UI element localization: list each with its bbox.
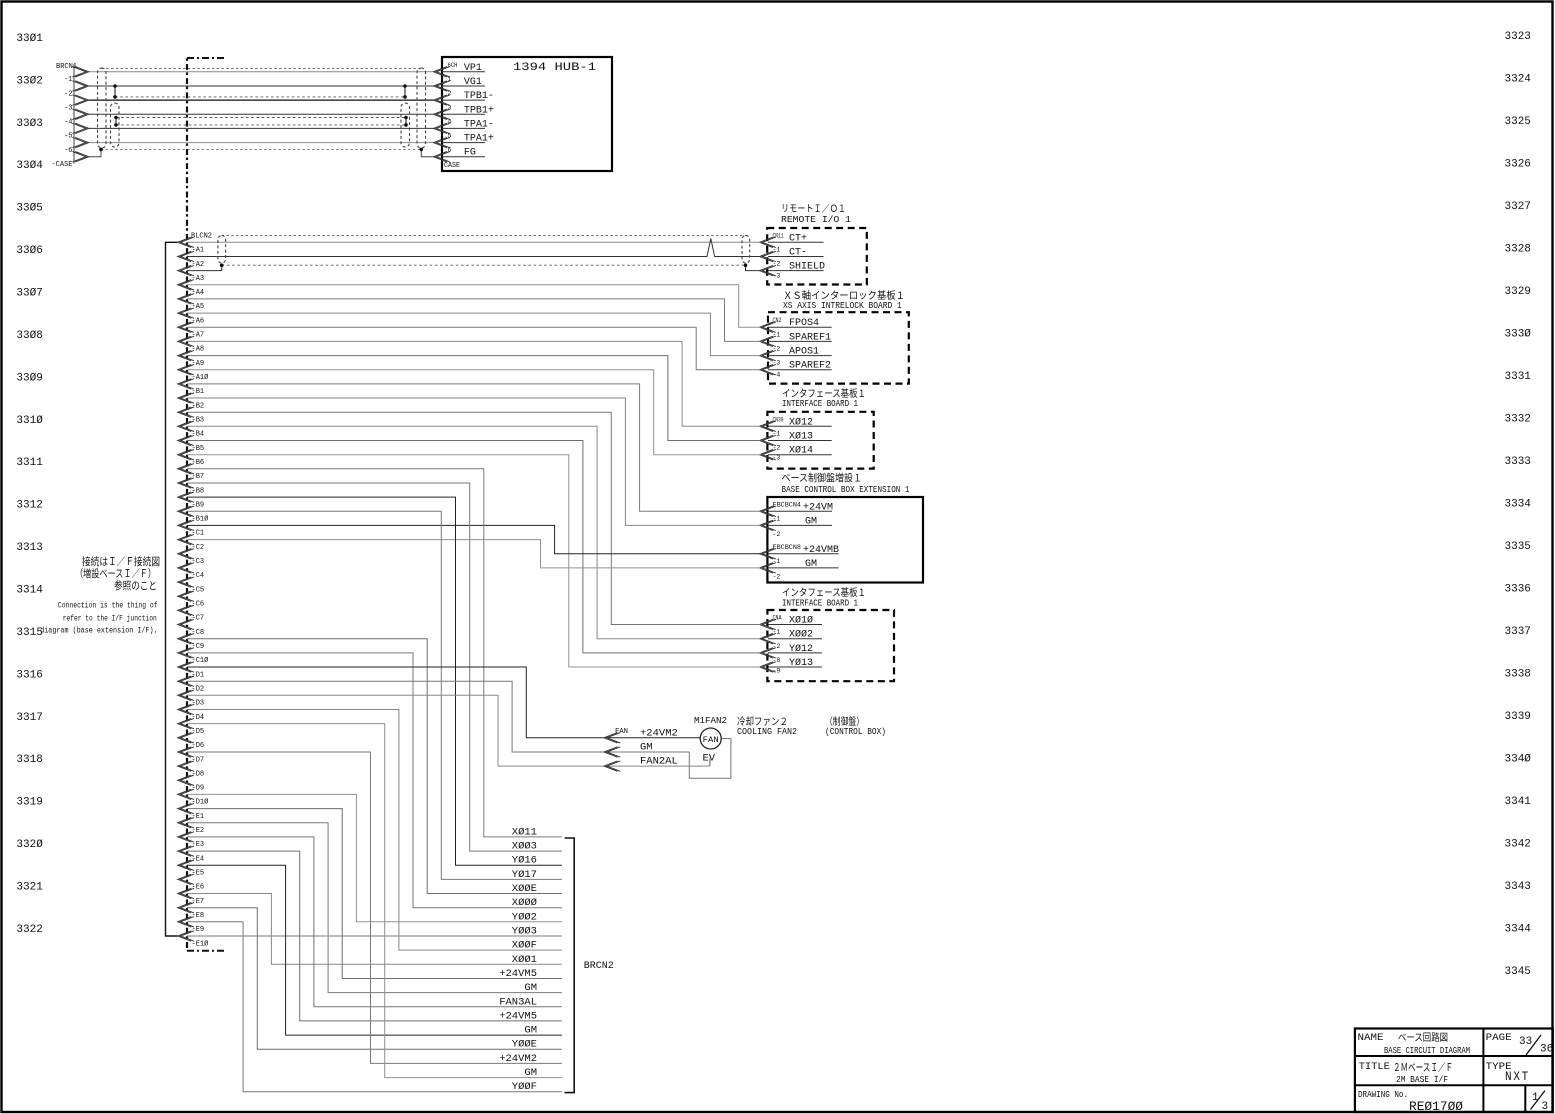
svg-text:2M BASE I/F: 2M BASE I/F (1396, 1074, 1448, 1085)
svg-text:-C8: -C8 (192, 629, 205, 637)
svg-text:EBCBCN4: EBCBCN4 (773, 501, 802, 508)
svg-text:XØØ1: XØØ1 (512, 954, 537, 966)
svg-text:BRCN2: BRCN2 (584, 961, 614, 972)
svg-text:-B4: -B4 (192, 431, 205, 439)
svg-text:CT-: CT- (789, 248, 807, 259)
svg-text:3332: 3332 (1505, 414, 1531, 426)
svg-text:XØ11: XØ11 (512, 826, 537, 838)
svg-text:COOLING FAN2: COOLING FAN2 (737, 727, 797, 737)
svg-text:ベース制御盤増設１: ベース制御盤増設１ (782, 472, 863, 485)
svg-text:-D6: -D6 (192, 742, 205, 750)
svg-text:3334: 3334 (1505, 499, 1532, 511)
svg-text:-3: -3 (773, 455, 781, 462)
svg-text:3322: 3322 (16, 924, 42, 936)
svg-text:-B1: -B1 (192, 388, 205, 396)
svg-text:-C4: -C4 (192, 572, 205, 580)
svg-text:GM: GM (640, 742, 653, 754)
svg-text:6: 6 (448, 147, 452, 154)
svg-text:3335: 3335 (1505, 541, 1531, 553)
svg-text:INTERFACE BOARD 1: INTERFACE BOARD 1 (782, 599, 858, 609)
svg-text:3338: 3338 (1505, 669, 1531, 681)
svg-text:3331: 3331 (1505, 371, 1532, 383)
svg-text:２ＭベースＩ／Ｆ: ２ＭベースＩ／Ｆ (1393, 1061, 1453, 1074)
svg-text:3336: 3336 (1505, 584, 1531, 596)
svg-text:-E1Ø: -E1Ø (192, 939, 209, 948)
svg-text:331Ø: 331Ø (16, 415, 43, 427)
svg-text:-D1: -D1 (192, 671, 205, 679)
svg-text:-E7: -E7 (192, 898, 205, 906)
svg-text:3342: 3342 (1505, 839, 1531, 851)
svg-text:3314: 3314 (16, 585, 43, 597)
svg-text:FPOS4: FPOS4 (789, 318, 819, 329)
svg-text:YØ16: YØ16 (512, 855, 537, 867)
svg-text:1: 1 (448, 76, 452, 83)
svg-text:NXT: NXT (1505, 1070, 1530, 1084)
svg-text:-B6: -B6 (192, 459, 205, 467)
svg-text:3337: 3337 (1505, 626, 1531, 638)
svg-text:33Ø1: 33Ø1 (16, 33, 43, 45)
svg-text:-E9: -E9 (192, 926, 205, 934)
svg-text:TPA1-: TPA1- (464, 119, 494, 130)
svg-text:-2: -2 (64, 90, 72, 98)
svg-text:-E1: -E1 (192, 813, 205, 821)
svg-text:BRCN1: BRCN1 (56, 63, 77, 71)
svg-text:XØ1Ø: XØ1Ø (789, 615, 813, 627)
svg-text:-B2: -B2 (192, 402, 205, 410)
svg-text:-D8: -D8 (192, 770, 205, 778)
svg-text:5: 5 (448, 133, 452, 140)
svg-text:3311: 3311 (16, 457, 43, 469)
svg-text:-A5: -A5 (192, 303, 205, 311)
svg-text:TPB1-: TPB1- (464, 91, 494, 102)
svg-text:SPAREF2: SPAREF2 (789, 361, 831, 372)
svg-text:DRAWING No.: DRAWING No. (1358, 1089, 1408, 1100)
svg-text:-E8: -E8 (192, 912, 205, 920)
svg-text:SPAREF1: SPAREF1 (789, 332, 831, 343)
svg-text:-C1: -C1 (192, 530, 205, 538)
svg-text:-1: -1 (64, 76, 72, 84)
svg-text:-2: -2 (773, 643, 781, 650)
svg-text:-2: -2 (773, 574, 781, 581)
svg-text:-4: -4 (773, 372, 781, 379)
svg-text:CN2: CN2 (773, 317, 782, 324)
svg-text:3341: 3341 (1505, 796, 1532, 808)
svg-text:+24VM5: +24VM5 (499, 1010, 537, 1022)
svg-text:-B5: -B5 (192, 445, 205, 453)
svg-text:XØØ3: XØØ3 (512, 841, 537, 853)
svg-text:+24VMB: +24VMB (803, 545, 839, 556)
svg-text:XØ13: XØ13 (789, 431, 813, 443)
svg-text:YØ13: YØ13 (789, 657, 813, 669)
svg-text:33Ø2: 33Ø2 (16, 75, 42, 87)
svg-text:YØØ3: YØØ3 (512, 926, 537, 938)
svg-text:-D2: -D2 (192, 686, 205, 694)
svg-text:3323: 3323 (1505, 31, 1531, 43)
svg-text:NAME: NAME (1358, 1032, 1384, 1044)
svg-text:PAGE: PAGE (1486, 1032, 1512, 1044)
svg-text:-2: -2 (773, 531, 781, 538)
svg-text:-5: -5 (64, 133, 72, 141)
svg-text:3316: 3316 (16, 669, 42, 681)
svg-text:33Ø9: 33Ø9 (16, 372, 42, 384)
svg-text:334Ø: 334Ø (1505, 754, 1532, 766)
svg-text:+24VM2: +24VM2 (640, 727, 678, 739)
svg-text:YØØF: YØØF (512, 1081, 537, 1093)
svg-text:333Ø: 333Ø (1505, 329, 1532, 341)
svg-text:33Ø7: 33Ø7 (16, 288, 42, 300)
svg-text:332Ø: 332Ø (16, 839, 43, 851)
svg-text:diagram (base extension I/F).: diagram (base extension I/F). (40, 625, 157, 635)
svg-text:-B7: -B7 (192, 473, 205, 481)
svg-text:33Ø5: 33Ø5 (16, 203, 42, 215)
svg-text:3343: 3343 (1505, 881, 1531, 893)
svg-text:3345: 3345 (1505, 966, 1531, 978)
svg-text:-E4: -E4 (192, 855, 205, 863)
svg-text:TITLE: TITLE (1359, 1061, 1390, 1073)
svg-text:YØØE: YØØE (512, 1039, 537, 1051)
svg-text:2: 2 (448, 90, 452, 97)
svg-text:3326: 3326 (1505, 159, 1531, 171)
svg-text:GM: GM (524, 1067, 537, 1079)
svg-text:-A3: -A3 (192, 275, 205, 283)
svg-text:3328: 3328 (1505, 244, 1531, 256)
svg-text:3315: 3315 (16, 627, 42, 639)
svg-text:-1: -1 (773, 431, 781, 438)
svg-text:-4: -4 (64, 119, 72, 127)
svg-text:-C3: -C3 (192, 558, 205, 566)
svg-text:-E3: -E3 (192, 841, 205, 849)
svg-text:33Ø6: 33Ø6 (16, 245, 42, 257)
svg-text:XØØØ: XØØØ (512, 897, 537, 909)
svg-text:-A1Ø: -A1Ø (192, 373, 209, 382)
svg-text:リモートＩ／Ｏ１: リモートＩ／Ｏ１ (781, 203, 846, 215)
svg-text:-C2: -C2 (192, 544, 205, 552)
svg-text:3324: 3324 (1505, 74, 1532, 86)
svg-text:-1: -1 (773, 247, 781, 254)
svg-text:TPB1+: TPB1+ (464, 105, 494, 116)
svg-text:YØ17: YØ17 (512, 869, 537, 881)
svg-text:FAN3AL: FAN3AL (499, 996, 537, 1008)
svg-text:YØ12: YØ12 (789, 643, 813, 655)
svg-text:EBCBCN8: EBCBCN8 (773, 544, 802, 551)
svg-text:-2: -2 (773, 346, 781, 353)
svg-text:3: 3 (1542, 1101, 1549, 1113)
svg-text:3318: 3318 (16, 754, 42, 766)
svg-text:-9: -9 (773, 668, 781, 675)
svg-text:FAN2AL: FAN2AL (640, 756, 678, 768)
svg-text:-A8: -A8 (192, 346, 205, 354)
svg-text:VG1: VG1 (464, 77, 482, 88)
svg-text:refer to the I/F junction: refer to the I/F junction (63, 613, 157, 623)
svg-text:XØ12: XØ12 (789, 416, 813, 428)
svg-text:-D1Ø: -D1Ø (192, 798, 209, 807)
svg-text:ベース回路図: ベース回路図 (1398, 1031, 1448, 1044)
svg-text:TPA1+: TPA1+ (464, 134, 494, 145)
svg-text:3327: 3327 (1505, 201, 1531, 213)
svg-text:-A2: -A2 (192, 261, 205, 269)
svg-text:3317: 3317 (16, 712, 42, 724)
svg-text:+24VM2: +24VM2 (499, 1053, 537, 1065)
svg-text:M1FAN2: M1FAN2 (694, 715, 727, 726)
svg-text:XS AXIS INTRELOCK BOARD 1: XS AXIS INTRELOCK BOARD 1 (783, 301, 902, 311)
svg-text:-B8: -B8 (192, 487, 205, 495)
svg-text:-1: -1 (773, 629, 781, 636)
svg-text:33Ø4: 33Ø4 (16, 160, 43, 172)
svg-text:3333: 3333 (1505, 456, 1531, 468)
svg-text:-1: -1 (773, 331, 781, 338)
svg-text:インタフェース基板１: インタフェース基板１ (782, 586, 866, 599)
svg-text:-D7: -D7 (192, 756, 205, 764)
svg-text:REMOTE I/O 1: REMOTE I/O 1 (781, 215, 851, 225)
svg-text:FAN: FAN (703, 736, 719, 745)
svg-text:-CASE: -CASE (51, 161, 72, 169)
svg-text:CN30: CN30 (773, 416, 784, 423)
svg-text:-2: -2 (773, 445, 781, 452)
svg-text:-3: -3 (64, 104, 72, 112)
svg-text:-D3: -D3 (192, 700, 205, 708)
svg-text:CT+: CT+ (789, 233, 807, 244)
svg-text:-2: -2 (773, 261, 781, 268)
svg-text:4: 4 (448, 118, 452, 125)
svg-text:SHIELD: SHIELD (789, 262, 825, 273)
svg-text:GM: GM (524, 982, 537, 994)
svg-text:-D5: -D5 (192, 728, 205, 736)
svg-text:-3: -3 (773, 273, 781, 280)
svg-text:-A9: -A9 (192, 360, 205, 368)
svg-text:REØ17ØØ: REØ17ØØ (1409, 1099, 1463, 1114)
svg-text:3339: 3339 (1505, 711, 1531, 723)
svg-text:FAN: FAN (615, 728, 628, 736)
svg-text:GM: GM (805, 516, 817, 527)
svg-text:-A7: -A7 (192, 332, 205, 340)
svg-text:-B1Ø: -B1Ø (192, 515, 209, 524)
svg-text:-B3: -B3 (192, 417, 205, 425)
svg-text:-C6: -C6 (192, 601, 205, 609)
svg-text:-A6: -A6 (192, 317, 205, 325)
svg-text:BLCN2: BLCN2 (191, 233, 212, 241)
svg-text:YØØ2: YØØ2 (512, 911, 537, 923)
svg-text:XØ14: XØ14 (789, 445, 813, 457)
svg-text:33Ø8: 33Ø8 (16, 330, 42, 342)
svg-text:-C5: -C5 (192, 586, 205, 594)
svg-text:XØØE: XØØE (512, 883, 537, 895)
svg-text:インタフェース基板１: インタフェース基板１ (782, 387, 866, 400)
svg-text:-8: -8 (773, 657, 781, 664)
svg-text:-C9: -C9 (192, 643, 205, 651)
svg-text:CASE: CASE (444, 162, 460, 170)
svg-text:-6: -6 (64, 147, 72, 155)
svg-text:XØØ2: XØØ2 (789, 629, 813, 641)
svg-text:-B9: -B9 (192, 501, 205, 509)
svg-text:EV: EV (703, 753, 716, 765)
svg-text:-D4: -D4 (192, 714, 205, 722)
svg-text:BASE CIRCUIT DIAGRAM: BASE CIRCUIT DIAGRAM (1384, 1045, 1470, 1056)
svg-text:VP1: VP1 (464, 63, 482, 74)
svg-text:3344: 3344 (1505, 924, 1532, 936)
svg-text:+24VM5: +24VM5 (499, 968, 537, 980)
svg-text:-E2: -E2 (192, 827, 205, 835)
svg-text:-3: -3 (773, 360, 781, 367)
svg-text:-C7: -C7 (192, 615, 205, 623)
svg-text:33Ø3: 33Ø3 (16, 118, 42, 130)
svg-text:BASE CONTROL BOX EXTENSION 1: BASE CONTROL BOX EXTENSION 1 (782, 485, 910, 495)
svg-text:36: 36 (1540, 1044, 1553, 1056)
svg-text:-D9: -D9 (192, 785, 205, 793)
svg-text:CN11: CN11 (773, 232, 784, 239)
svg-text:Connection is the thing of: Connection is the thing of (58, 600, 158, 610)
svg-text:-1: -1 (773, 515, 781, 522)
svg-text:1394 HUB-1: 1394 HUB-1 (513, 62, 596, 74)
svg-text:33: 33 (1519, 1036, 1532, 1048)
svg-text:3329: 3329 (1505, 286, 1531, 298)
svg-text:(CONTROL BOX): (CONTROL BOX) (825, 727, 886, 737)
svg-text:3313: 3313 (16, 542, 42, 554)
svg-text:GM: GM (805, 559, 817, 570)
svg-text:-C1Ø: -C1Ø (192, 656, 209, 665)
svg-text:-E5: -E5 (192, 870, 205, 878)
svg-text:CNA: CNA (773, 615, 782, 622)
svg-text:接続はＩ／Ｆ接続図: 接続はＩ／Ｆ接続図 (82, 555, 160, 568)
svg-text:FG: FG (464, 148, 476, 159)
svg-text:（増設ベースＩ／Ｆ）: （増設ベースＩ／Ｆ） (75, 567, 156, 580)
svg-text:-A1: -A1 (192, 247, 205, 255)
svg-text:-A4: -A4 (192, 289, 205, 297)
svg-text:3: 3 (448, 104, 452, 111)
svg-text:3319: 3319 (16, 797, 42, 809)
svg-text:参照のこと: 参照のこと (114, 579, 157, 592)
svg-text:XØØF: XØØF (512, 940, 537, 952)
svg-text:3325: 3325 (1505, 116, 1531, 128)
svg-text:3321: 3321 (16, 882, 43, 894)
svg-text:-E6: -E6 (192, 884, 205, 892)
svg-text:6CH: 6CH (448, 62, 458, 69)
svg-text:-1: -1 (773, 558, 781, 565)
svg-text:3312: 3312 (16, 500, 42, 512)
svg-text:GM: GM (524, 1025, 537, 1037)
svg-text:+24VM: +24VM (803, 502, 833, 513)
svg-text:INTERFACE BOARD 1: INTERFACE BOARD 1 (782, 399, 858, 409)
svg-text:APOS1: APOS1 (789, 347, 819, 358)
